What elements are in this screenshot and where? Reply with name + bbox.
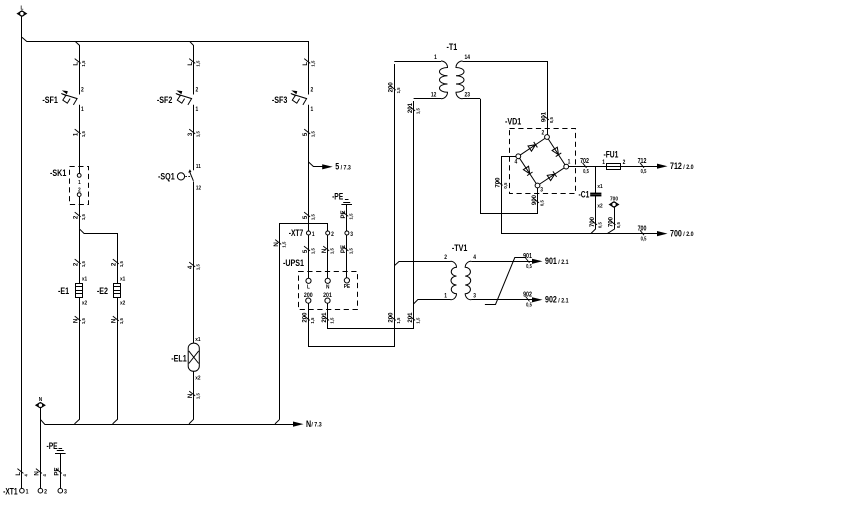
circuit breaker SF1 [42,87,83,113]
wire tap to SF2 [190,42,194,95]
circuit breaker SF3 [272,87,313,113]
svg-text:-PE: -PE [332,191,343,201]
svg-text:1,5: 1,5 [415,108,420,114]
wire 201 tap to TV1 pin1 [414,300,451,304]
fuse FU1 [602,150,625,170]
ground PE above XT7 [332,191,352,204]
wire mark L 1,5 above SF3 [302,59,316,67]
terminal strip XT1 [3,487,67,497]
svg-text:1,5: 1,5 [329,317,334,323]
wire 702 bridge plus to FU1 [568,166,660,168]
wire mark 2 1,5 below SK1 [72,212,86,220]
arrow 700 / 2.0 [657,229,694,239]
svg-text:702: 702 [580,157,589,165]
svg-text:PE: PE [340,210,347,218]
svg-text:-SF1: -SF1 [42,94,58,105]
svg-text:1: 1 [434,54,437,61]
wire E1 down [79,297,81,321]
svg-text:N: N [187,393,194,398]
svg-text:PE: PE [344,284,351,291]
svg-text:1,5: 1,5 [81,261,86,267]
bridge pins [514,130,570,193]
diode VD1.1 (4 to 2) [528,142,537,151]
screen of TV1 [485,258,526,305]
wire mark 3 1,5 [187,129,201,137]
svg-text:1: 1 [78,179,81,186]
wire 5 branch to sheet ref [309,162,324,166]
svg-text:1,5: 1,5 [195,264,200,270]
wire E2 down [117,297,119,321]
wire PE down to XT7 pin3 [346,205,348,231]
wire SF1 to SK1 [79,105,81,174]
svg-text:14: 14 [465,54,471,61]
svg-text:1,5: 1,5 [348,248,353,254]
svg-text:L: L [15,472,22,476]
wire 700 from bridge minus [502,157,661,234]
svg-text:1,5: 1,5 [310,131,315,137]
wire mark N 1,5 below E2 [110,316,124,324]
svg-text:-XT7: -XT7 [289,228,303,238]
arrow 901 / 2.1 [532,256,569,266]
wire mark 1 1,5 [72,129,86,137]
svg-text:5: 5 [302,132,309,136]
wire N vertical drop [40,408,42,489]
wire EL1 to N bus [189,396,194,424]
svg-text:1,5: 1,5 [195,393,200,399]
svg-text:1,5: 1,5 [310,60,315,66]
wire mark 702 0,5 [580,157,589,174]
wire E2 to N bus [113,321,118,424]
svg-text:-E2: -E2 [97,285,108,296]
diode VD1.3 (4 to 3) [523,166,532,175]
transformer TV1 [444,242,535,300]
wire 201 from UPS [328,101,414,329]
svg-text:200: 200 [387,312,394,323]
svg-text:900: 900 [531,195,538,206]
svg-text:N: N [326,284,330,291]
svg-text:1,5: 1,5 [119,261,124,267]
terminal N (supply link) [36,397,45,408]
wire mark N 1,5 below EL1 [187,391,201,399]
wire mark N 1,5 below XT7-2 [321,246,335,254]
wire mark 902 0,5 output [523,291,532,308]
diode VD1.4 (3 to 1) [547,171,556,180]
svg-text:1,5: 1,5 [81,214,86,220]
svg-text:-E1: -E1 [58,285,69,296]
svg-text:700: 700 [607,217,614,228]
svg-text:/ 2.0: / 2.0 [683,163,694,171]
svg-text:-EL1: -EL1 [171,353,187,364]
svg-text:1: 1 [568,159,571,166]
svg-text:1: 1 [81,107,84,114]
svg-text:0,5: 0,5 [583,169,589,174]
svg-text:5: 5 [302,215,309,219]
wire mark 700 0,5 at C1 [589,217,603,229]
svg-text:2: 2 [72,262,79,266]
svg-text:12: 12 [196,185,201,192]
svg-text:2: 2 [81,87,84,94]
wire mark 200 1,5 riser top [387,82,401,94]
svg-text:1: 1 [602,160,605,167]
wire 2 to E1 [79,229,81,284]
svg-text:700: 700 [638,225,647,233]
wire EL1 down [193,371,195,396]
wire mark 201 1,5 below UPS [321,312,335,324]
svg-text:-C1: -C1 [579,189,590,199]
svg-text:3: 3 [350,231,353,238]
wire mark L 4 at XT1 [15,469,29,477]
wire N bus [40,419,294,424]
svg-text:1,5: 1,5 [415,317,420,323]
svg-text:201: 201 [321,312,328,323]
wire XT7-3 to UPS PE [346,235,348,278]
svg-text:3: 3 [473,293,476,300]
svg-text:x2: x2 [82,300,87,307]
svg-text:1,5: 1,5 [281,241,286,247]
terminal 700 [610,196,619,207]
door switch SQ1 [158,164,201,192]
svg-text:1,5: 1,5 [119,318,124,324]
svg-text:700: 700 [610,196,618,203]
wire mark 2 1,5 above E1 [72,259,86,267]
svg-text:0,5: 0,5 [597,222,602,228]
svg-text:0,5: 0,5 [641,169,647,174]
svg-text:901: 901 [540,112,547,123]
svg-text:0,5: 0,5 [526,264,532,269]
terminal strip XT7 [289,228,353,238]
wire mark 900 0,5 [531,195,545,207]
wire N from bus up to XT7 pin 2 [280,224,328,420]
wire mark 700 0,5 at terminal [607,217,621,229]
wire to C1 [595,166,597,193]
svg-text:2: 2 [623,160,626,167]
svg-text:N: N [72,318,79,323]
wire E1 to N bus [75,321,80,424]
svg-text:1,5: 1,5 [81,60,86,66]
wire mark PE 4 at XT1 [53,468,67,477]
svg-text:2: 2 [444,255,447,262]
svg-text:N: N [273,242,280,247]
wire mark 700 0,5 vertical [494,177,508,189]
wire mark 700 0,5 on bus [638,225,647,242]
svg-text:0,5: 0,5 [539,200,544,206]
wire 200 from UPS [309,64,395,347]
wire mark L 1,5 above SF2 [187,59,201,67]
svg-text:x1: x1 [120,276,125,283]
wire terminal 700 down [607,207,614,234]
wire mark PE 1,5 below XT7-3 [340,245,354,254]
wire mark 201 1,5 riser top [407,103,421,115]
svg-text:/ 2.1: / 2.1 [558,258,569,266]
svg-text:23: 23 [465,92,470,99]
svg-text:1,5: 1,5 [195,131,200,137]
wire mark 2 1,5 above E2 [110,259,124,267]
svg-text:-SK1: -SK1 [50,167,67,178]
circuit breaker SF2 [157,87,198,113]
svg-text:N: N [110,318,117,323]
svg-text:/ 7.3: / 7.3 [311,421,322,429]
svg-text:901: 901 [545,256,557,266]
svg-text:x2: x2 [597,203,602,210]
wire L vertical drop [21,16,23,488]
svg-text:x2: x2 [195,375,200,382]
svg-text:PE: PE [340,245,347,253]
capacitor C1 [579,184,603,210]
svg-text:/ 2.1: / 2.1 [558,297,569,305]
svg-text:-FU1: -FU1 [604,150,619,160]
svg-text:-XT1: -XT1 [3,487,18,497]
svg-text:L: L [72,62,79,66]
svg-text:2: 2 [110,262,117,266]
svg-text:902: 902 [523,291,532,299]
svg-text:-T1: -T1 [447,41,458,52]
svg-text:-PE: -PE [46,441,57,451]
svg-text:/ 7.3: / 7.3 [341,164,352,172]
wire mark 200 1,5 below UPS [301,312,315,324]
arrow 902 / 2.1 [532,295,569,305]
svg-text:x1: x1 [82,276,87,283]
svg-text:201: 201 [407,312,414,323]
svg-text:-SF3: -SF3 [272,94,288,105]
svg-text:L: L [187,62,194,66]
heater E2 [97,276,125,306]
svg-text:L: L [302,62,309,66]
wire 901 T1 pin14 to bridge [547,61,549,135]
svg-text:1,5: 1,5 [310,248,315,254]
svg-text:5: 5 [335,162,339,172]
thermostat SK1 [50,167,88,205]
wire tap to SF1 [75,42,79,95]
arrow N / 7.3 [293,419,322,429]
svg-text:901: 901 [523,252,532,260]
transformer T1 [394,41,547,99]
wire mark 901 0,5 output [523,252,532,269]
heater E1 [58,276,87,306]
wire mark 5 1,5 above XT7 [302,212,316,220]
wire mark 712 0,5 [638,157,647,174]
svg-text:2: 2 [331,231,334,238]
wire L distribution bus [22,37,309,94]
wire mark PE 1,5 [340,210,354,219]
wire SK1 down [79,197,81,229]
svg-text:N: N [39,397,43,404]
svg-text:5: 5 [302,249,309,253]
svg-text:2: 2 [311,87,314,94]
svg-text:1,5: 1,5 [81,318,86,324]
svg-text:200: 200 [301,312,308,323]
wire mark 901 0,5 [540,112,554,124]
svg-text:1,5: 1,5 [310,214,315,220]
diode VD1.2 (2 to 1) [552,147,561,156]
svg-text:1: 1 [311,107,314,114]
svg-text:1,5: 1,5 [329,248,334,254]
wire C1 to 700 bus [591,196,596,234]
svg-text:0,5: 0,5 [549,117,554,123]
diode bridge VD1 [505,115,576,193]
svg-text:-UPS1: -UPS1 [283,257,304,268]
wire mark 4 1,5 [187,262,201,270]
svg-text:700: 700 [494,177,501,188]
wire mark 5 1,5 below XT7-1 [302,246,316,254]
svg-text:1,5: 1,5 [310,317,315,323]
wire XT7-1 to UPS L [308,235,310,278]
arrow 5 / 7.3 [322,162,351,172]
svg-text:1,5: 1,5 [396,87,401,93]
svg-text:2: 2 [78,187,81,194]
svg-text:11: 11 [196,164,201,171]
terminal L (supply link) [18,5,27,16]
svg-text:1: 1 [196,107,199,114]
svg-text:3: 3 [540,187,543,194]
ground PE bottom [46,441,65,454]
svg-text:12: 12 [431,92,436,99]
svg-text:4: 4 [187,265,194,269]
svg-text:1,5: 1,5 [195,60,200,66]
arrow 712 / 2.0 [657,161,694,171]
wire mark 5 1,5 [302,129,316,137]
svg-text:200: 200 [387,82,394,93]
svg-text:2: 2 [541,130,544,137]
svg-text:1,5: 1,5 [81,131,86,137]
svg-text:0,5: 0,5 [526,302,532,307]
wire SF3 down [308,105,310,231]
svg-text:N: N [306,419,311,429]
svg-text:0,5: 0,5 [616,222,621,228]
svg-text:1: 1 [312,231,315,238]
wire mark 200 1,5 riser low [387,312,401,324]
wire PE down to XT1 [60,454,62,489]
svg-text:N: N [33,471,40,476]
svg-text:712: 712 [638,157,647,165]
svg-text:1,5: 1,5 [396,317,401,323]
svg-text:x1: x1 [597,184,602,191]
svg-text:1,5: 1,5 [348,213,353,219]
svg-text:-SQ1: -SQ1 [158,171,175,182]
svg-text:x2: x2 [120,300,125,307]
wire mark N 1,5 [273,240,287,248]
wire mark N 1,5 below E1 [72,316,86,324]
svg-text:-VD1: -VD1 [505,115,522,126]
svg-text:PE: PE [53,468,60,476]
wire 200 tap to TV1 pin2 [394,262,450,266]
svg-text:0,5: 0,5 [641,236,647,241]
svg-text:/ 2.0: / 2.0 [683,231,694,239]
svg-text:712: 712 [670,161,682,171]
wire mark N 4 at XT1 [33,469,47,477]
svg-text:2: 2 [72,215,79,219]
wire SF2 to SQ1 [193,105,195,170]
bridge edges [518,137,566,186]
svg-text:2: 2 [196,87,199,94]
svg-text:x1: x1 [195,336,200,343]
svg-text:3: 3 [187,132,194,136]
lamp EL1 [171,336,200,381]
svg-text:N: N [321,248,328,253]
svg-text:1: 1 [444,293,447,300]
svg-text:-SF2: -SF2 [157,94,173,105]
wire XT7-2 to UPS N [327,235,329,278]
svg-text:700: 700 [589,217,596,228]
wire mark L 1,5 above SF1 [72,59,86,67]
svg-text:201: 201 [407,103,414,114]
wire SQ1 down [193,182,195,344]
UPS unit UPS1 [283,257,358,310]
svg-text:-TV1: -TV1 [452,242,468,253]
wire branch 2 to E2 [79,229,117,284]
svg-text:902: 902 [545,295,557,305]
svg-text:0,5: 0,5 [503,182,508,188]
wire 900 T1 pin23 to bridge [481,99,538,214]
wire mark 201 1,5 riser low [407,312,421,324]
svg-text:1: 1 [72,132,79,136]
svg-text:700: 700 [670,229,682,239]
